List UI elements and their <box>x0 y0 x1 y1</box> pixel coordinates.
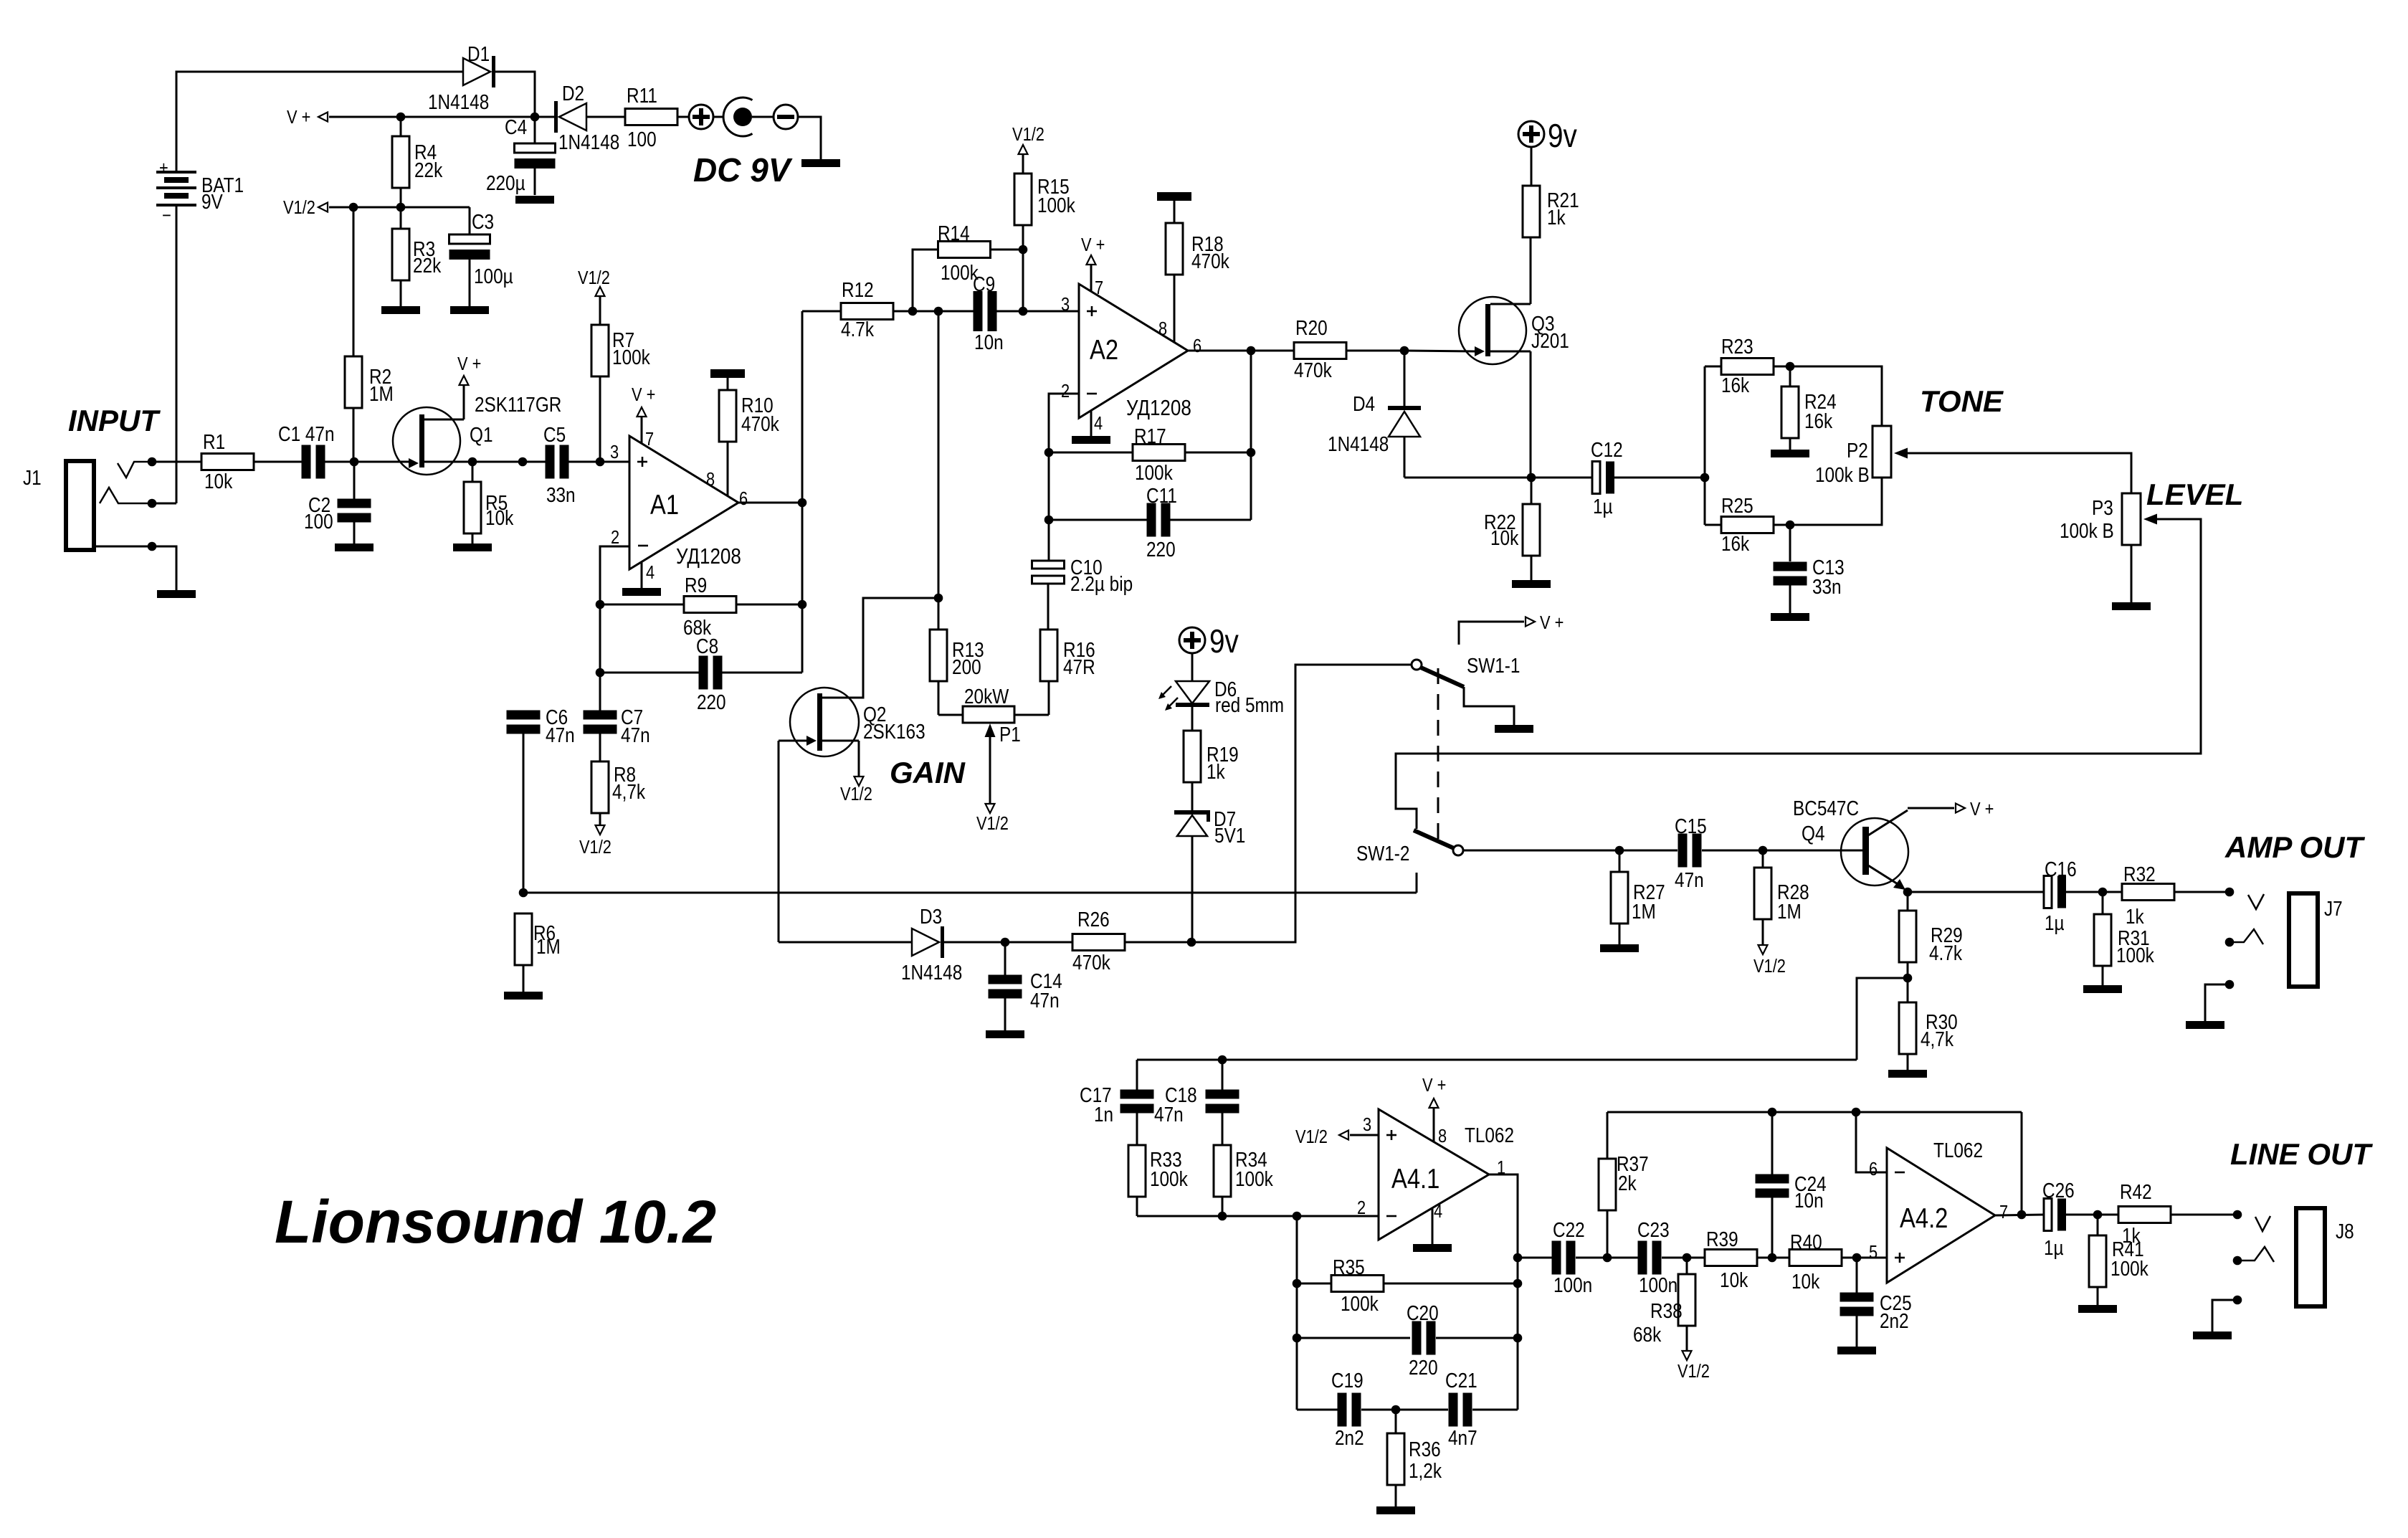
svg-text:47n: 47n <box>1154 1103 1184 1126</box>
svg-text:D1: D1 <box>467 42 490 65</box>
resistor R25 <box>1705 524 1721 526</box>
junction C24 top <box>1768 1108 1777 1117</box>
svg-text:Q1: Q1 <box>470 423 492 446</box>
svg-text:10n: 10n <box>1794 1189 1824 1212</box>
svg-text:33n: 33n <box>546 483 576 506</box>
junction A4.2 out <box>2017 1210 2027 1220</box>
ground R27 <box>1600 944 1639 952</box>
J8 sleeve contact <box>2233 1296 2242 1305</box>
jack J8 <box>2255 1216 2270 1231</box>
svg-text:1k: 1k <box>2126 905 2144 928</box>
diode D1 <box>463 58 490 85</box>
resistor R22 <box>1531 478 1533 504</box>
resistor R28 <box>1762 850 1764 868</box>
svg-text:470k: 470k <box>1294 359 1332 381</box>
transistor Q1 <box>393 407 460 475</box>
svg-text:33n: 33n <box>1812 575 1842 598</box>
junction R27 <box>1615 846 1624 855</box>
svg-text:470k: 470k <box>1191 250 1229 272</box>
junction R41 top <box>2093 1210 2103 1220</box>
svg-text:2: 2 <box>1357 1197 1366 1218</box>
wire A2 feedback column <box>1250 351 1252 520</box>
svg-text:УД1208: УД1208 <box>676 544 741 569</box>
svg-text:C8: C8 <box>696 635 718 658</box>
ground R3 <box>381 306 420 314</box>
resistor R41 <box>2097 1215 2099 1235</box>
svg-text:4: 4 <box>1434 1201 1442 1222</box>
svg-text:22k: 22k <box>414 158 443 181</box>
svg-text:SW1-2: SW1-2 <box>1356 842 1409 865</box>
svg-text:47n: 47n <box>621 723 650 746</box>
svg-text:100n: 100n <box>1553 1273 1592 1296</box>
svg-text:R20: R20 <box>1295 316 1328 339</box>
svg-text:1µ: 1µ <box>2045 911 2065 934</box>
wire C1 to Q1 gate <box>325 461 409 463</box>
svg-text:1N4148: 1N4148 <box>901 961 962 984</box>
wire R33/R34 to A4.1 pin2 <box>1137 1215 1379 1217</box>
ground R5 <box>453 543 492 551</box>
junction C22 left <box>1513 1253 1523 1263</box>
svg-text:R9: R9 <box>685 574 707 597</box>
wire Q2 gate column <box>778 741 780 942</box>
op-amp A4.1 <box>1379 1109 1489 1240</box>
jack J7 <box>2248 894 2264 909</box>
junction R31 <box>2098 888 2108 897</box>
resistor R23 <box>1705 366 1721 368</box>
svg-text:4: 4 <box>1094 413 1103 434</box>
svg-text:3: 3 <box>1363 1114 1371 1135</box>
ground R30 <box>1888 1070 1927 1078</box>
svg-text:100k: 100k <box>1037 194 1075 217</box>
svg-text:V +: V + <box>1081 234 1105 255</box>
svg-text:200: 200 <box>952 655 981 678</box>
ground SW1-1 <box>1495 725 1533 733</box>
wire A2 pin2 <box>1049 394 1079 561</box>
ground R31 <box>2083 985 2122 993</box>
resistor R11 <box>586 116 625 118</box>
ground J8 <box>2193 1331 2232 1339</box>
wire Q1 source to C5 <box>472 461 546 463</box>
resistor R20 <box>1294 343 1346 359</box>
V+ arrow A4.1 pin8 <box>1433 1109 1435 1141</box>
ground A4.1 pin4 <box>1432 1208 1434 1244</box>
battery BAT1 <box>156 171 196 174</box>
junction R17 right <box>1247 448 1256 457</box>
V+ arrow SW1-1 throw <box>1459 622 1524 645</box>
svg-text:1k: 1k <box>2122 1224 2141 1247</box>
capacitor C1 <box>302 445 311 479</box>
svg-text:V +: V + <box>1970 799 1994 820</box>
junction Q2 column <box>934 307 943 316</box>
junction C20 right <box>1513 1334 1523 1343</box>
svg-text:Q4: Q4 <box>1802 822 1825 845</box>
capacitor C4 <box>534 117 536 143</box>
svg-text:V +: V + <box>287 107 310 128</box>
resistor R42 <box>2118 1207 2171 1223</box>
capacitor C13 <box>1789 525 1791 561</box>
svg-text:1M: 1M <box>536 935 561 958</box>
node V1/2 arrow <box>318 203 328 212</box>
J7 sleeve contact <box>2225 980 2235 989</box>
svg-text:9v: 9v <box>1548 118 1577 154</box>
wire P2 wiper to P3 top <box>1908 453 2131 493</box>
wire input row <box>152 461 201 463</box>
svg-text:P3: P3 <box>2092 496 2113 519</box>
junction R3 top <box>396 203 406 212</box>
capacitor C21 <box>1396 1409 1448 1411</box>
svg-text:47n: 47n <box>1675 868 1704 891</box>
svg-text:2SK117GR: 2SK117GR <box>475 393 561 416</box>
junction C11 left <box>1044 516 1054 525</box>
svg-text:4n7: 4n7 <box>1448 1426 1477 1449</box>
svg-text:100k: 100k <box>2116 944 2154 967</box>
svg-text:LINE OUT: LINE OUT <box>2230 1137 2373 1171</box>
resistor R13 <box>938 311 940 630</box>
junction R36 <box>1391 1405 1401 1415</box>
svg-text:100n: 100n <box>1639 1273 1677 1296</box>
svg-text:220: 220 <box>1146 538 1176 561</box>
resistor R37 <box>1607 1210 1609 1258</box>
svg-text:+: + <box>159 158 168 179</box>
svg-text:2k: 2k <box>1618 1172 1637 1195</box>
resistor R33 <box>1128 1145 1146 1197</box>
capacitor C8 <box>600 672 699 674</box>
svg-text:2n2: 2n2 <box>1880 1309 1909 1332</box>
node V+ arrow <box>318 113 328 122</box>
resistor R6 <box>515 913 532 965</box>
LED D6 <box>1191 653 1194 681</box>
svg-text:100k B: 100k B <box>1815 463 1870 486</box>
jack J1 <box>66 461 94 550</box>
resistor R21 <box>1523 186 1540 237</box>
svg-text:C4: C4 <box>505 115 527 138</box>
capacitor C19 <box>1297 1409 1338 1411</box>
V+ arrow Q4 collector <box>1908 807 1954 810</box>
svg-text:100k: 100k <box>1341 1292 1379 1315</box>
capacitor C9 <box>974 291 983 331</box>
junction R28 <box>1759 846 1768 855</box>
junction R7 bottom <box>596 457 605 467</box>
junction A1 out <box>798 498 807 508</box>
junction R5 node <box>468 457 477 467</box>
svg-text:V1/2: V1/2 <box>578 267 610 288</box>
wire A1 pin2 <box>600 546 629 711</box>
9v supply Q3 <box>1518 121 1544 147</box>
wire to D3 <box>779 941 912 944</box>
svg-text:TL062: TL062 <box>1933 1139 1983 1162</box>
resistor R2 <box>353 207 355 356</box>
svg-text:2SK163: 2SK163 <box>863 720 925 743</box>
capacitor C14 <box>1004 942 1006 975</box>
resistor R27 <box>1619 850 1621 872</box>
J1 sleeve contact <box>94 546 152 548</box>
svg-text:100k: 100k <box>1235 1167 1273 1190</box>
capacitor C11 <box>1049 519 1147 521</box>
svg-text:C15: C15 <box>1675 815 1707 837</box>
wire C6 to R6 node <box>523 734 525 893</box>
svg-text:C22: C22 <box>1553 1218 1585 1241</box>
capacitor C18 <box>1222 1060 1224 1090</box>
svg-text:10k: 10k <box>1490 526 1519 549</box>
junction C6 column <box>518 457 528 467</box>
resistor R1 <box>201 454 254 470</box>
V1/2 arrow Q2 source <box>858 741 860 776</box>
capacitor C5 <box>546 445 555 479</box>
svg-text:R35: R35 <box>1333 1255 1365 1278</box>
resistor R12 <box>802 310 841 313</box>
junction R23/R24 <box>1786 362 1795 371</box>
capacitor C7 <box>584 711 617 720</box>
capacitor C22 <box>1518 1257 1552 1259</box>
svg-text:R32: R32 <box>2123 863 2156 886</box>
ground C14 <box>986 1030 1024 1038</box>
svg-text:1N4148: 1N4148 <box>558 130 619 153</box>
ground R6 <box>504 992 543 1000</box>
svg-text:2: 2 <box>611 527 619 548</box>
capacitor C3 <box>469 207 471 235</box>
svg-text:6: 6 <box>1193 336 1201 356</box>
wire D1 cathode to V+ node <box>495 72 535 117</box>
svg-text:−: − <box>162 205 171 226</box>
capacitor C26 <box>2044 1199 2052 1231</box>
resistor R38 <box>1686 1258 1688 1274</box>
wire battery+ to D1 top rail <box>176 72 463 172</box>
junction pin6 column <box>1852 1108 1861 1117</box>
junction C14 <box>1001 938 1010 947</box>
transistor Q2 <box>822 598 938 698</box>
svg-text:7: 7 <box>1095 277 1103 298</box>
svg-text:16k: 16k <box>1721 532 1750 555</box>
svg-text:J1: J1 <box>23 466 42 489</box>
capacitor C24 <box>1771 1112 1774 1174</box>
svg-text:1N4148: 1N4148 <box>1328 432 1389 455</box>
svg-text:R17: R17 <box>1134 424 1166 447</box>
resistor R8 <box>599 734 601 761</box>
wire P3 bottom to ground <box>2131 545 2133 602</box>
svg-text:C19: C19 <box>1331 1369 1364 1392</box>
junction R35 left <box>1293 1279 1302 1288</box>
wire SW1-2 lower throw <box>1416 873 1418 893</box>
svg-text:16k: 16k <box>1804 409 1833 432</box>
capacitor C23 <box>1638 1241 1647 1275</box>
wire battery- to J1 ring <box>176 207 178 503</box>
svg-text:9V: 9V <box>201 190 223 213</box>
junction R35 right <box>1513 1279 1523 1288</box>
svg-text:D4: D4 <box>1353 392 1375 415</box>
J1 tip contact <box>118 462 152 478</box>
capacitor C12 <box>1531 477 1593 479</box>
svg-text:6: 6 <box>1869 1159 1878 1179</box>
transistor Q3 <box>1459 297 1526 364</box>
svg-text:8: 8 <box>1158 318 1167 339</box>
wire R23 junction to P2 top <box>1790 366 1882 426</box>
wire A4.2 pin6 <box>1856 1112 1887 1172</box>
ground R24 <box>1771 450 1809 457</box>
svg-text:A4.1: A4.1 <box>1391 1162 1439 1194</box>
ground J1 <box>157 590 196 598</box>
junction R9 left <box>596 600 605 609</box>
ground C4 <box>515 196 554 204</box>
svg-text:GAIN: GAIN <box>890 756 966 789</box>
resistor R3 <box>400 207 402 229</box>
junction R37 bottom <box>1603 1253 1612 1263</box>
J1 ring contact <box>100 488 152 503</box>
svg-text:D3: D3 <box>920 905 942 928</box>
svg-text:100: 100 <box>304 510 333 533</box>
junction R2 top <box>349 203 358 212</box>
svg-text:R39: R39 <box>1706 1228 1738 1250</box>
svg-text:Lionsound 10.2: Lionsound 10.2 <box>275 1188 716 1255</box>
resistor R9 <box>600 604 684 606</box>
svg-text:9v: 9v <box>1209 623 1239 660</box>
J8 ring contact <box>2233 1256 2242 1266</box>
resistor R7 <box>596 287 605 296</box>
op-amp A1 <box>629 436 738 569</box>
V+ arrow Q1 drain <box>460 376 469 385</box>
ground R41 <box>2078 1305 2117 1313</box>
svg-text:C16: C16 <box>2045 858 2077 880</box>
svg-text:10k: 10k <box>204 470 233 493</box>
svg-text:R42: R42 <box>2120 1180 2152 1203</box>
junction R29/R30 <box>1903 974 1913 983</box>
svg-text:C21: C21 <box>1445 1369 1477 1392</box>
wire D3 to C14 junction <box>944 941 1005 944</box>
resistor R39 <box>1705 1250 1757 1266</box>
junction R2/C2 node <box>350 457 359 467</box>
svg-text:TL062: TL062 <box>1465 1124 1514 1147</box>
junction V+ node <box>530 113 540 122</box>
ground C25 <box>1837 1347 1876 1354</box>
svg-text:68k: 68k <box>1633 1323 1662 1346</box>
svg-text:AMP OUT: AMP OUT <box>2224 830 2365 864</box>
svg-text:2: 2 <box>1061 381 1070 402</box>
wire tone block left rail <box>1704 366 1706 525</box>
wire C5 to A1 pin3 <box>568 461 629 463</box>
switch SW1-2 <box>1453 845 1463 855</box>
junction C12 node <box>1527 473 1536 483</box>
junction R4 top <box>396 113 406 122</box>
svg-text:V1/2: V1/2 <box>1295 1126 1328 1147</box>
J7 ring contact <box>2225 938 2235 947</box>
svg-text:10k: 10k <box>485 506 514 529</box>
svg-text:V1/2: V1/2 <box>840 784 872 804</box>
svg-text:A2: A2 <box>1090 333 1118 365</box>
svg-text:R12: R12 <box>842 278 874 301</box>
capacitor C10 bipolar <box>1032 561 1065 569</box>
capacitor C6 <box>507 711 541 720</box>
svg-text:P1: P1 <box>999 723 1021 746</box>
resistor R29 <box>1907 892 1909 911</box>
resistor R40 <box>1789 1250 1842 1266</box>
capacitor C20 <box>1297 1337 1410 1339</box>
junction left column <box>1293 1212 1302 1221</box>
wire SW1-2 pole out <box>1463 850 1677 852</box>
diode D4 <box>1404 351 1406 406</box>
svg-text:C20: C20 <box>1407 1301 1439 1324</box>
svg-text:4,7k: 4,7k <box>612 780 646 803</box>
wire DC jack minus to ground <box>798 117 821 159</box>
junction R25/C13 <box>1786 521 1795 530</box>
wire LED node to SW1-1 <box>1191 665 1412 942</box>
svg-text:V1/2: V1/2 <box>579 837 611 858</box>
ground P3 <box>2112 602 2151 610</box>
ground DC jack <box>801 159 840 167</box>
svg-text:R14: R14 <box>938 222 970 245</box>
junction R9 right <box>798 600 807 609</box>
resistor R35 <box>1297 1283 1331 1285</box>
svg-text:7: 7 <box>1999 1202 2008 1223</box>
svg-text:R38: R38 <box>1650 1299 1683 1322</box>
op-amp A4.2 <box>1887 1148 1995 1283</box>
junction C8 left <box>596 668 605 678</box>
junction tone input <box>1700 473 1710 483</box>
svg-text:A1: A1 <box>650 488 679 520</box>
svg-text:BC547C: BC547C <box>1793 797 1859 820</box>
resistor R14 <box>913 250 938 311</box>
svg-text:J8: J8 <box>2336 1220 2354 1243</box>
resistor R32 <box>2103 891 2122 893</box>
resistor R19 <box>1191 707 1194 731</box>
ground C2 <box>335 543 373 551</box>
svg-text:C1 47n: C1 47n <box>278 422 335 445</box>
svg-text:100: 100 <box>627 128 657 151</box>
junction C18 top <box>1218 1055 1227 1065</box>
svg-text:C3: C3 <box>472 210 494 233</box>
svg-text:3: 3 <box>1061 294 1070 315</box>
junction R14 right <box>1019 245 1028 255</box>
wire P2 bottom to R25 junction <box>1790 478 1882 525</box>
svg-text:47R: 47R <box>1063 655 1095 678</box>
svg-text:A4.2: A4.2 <box>1900 1202 1948 1233</box>
junction Q2 drain <box>934 594 943 603</box>
svg-text:V1/2: V1/2 <box>976 813 1009 834</box>
svg-text:220: 220 <box>1409 1356 1438 1379</box>
resistor R10 <box>710 369 745 378</box>
wire A4.2 feedback row <box>1607 1111 2022 1114</box>
ground A1 pin4 <box>641 562 643 588</box>
svg-text:D2: D2 <box>562 82 584 105</box>
resistor R4 <box>400 117 402 136</box>
svg-text:C5: C5 <box>543 423 566 446</box>
wire feedback to C17/C18 <box>1137 1059 1857 1061</box>
svg-text:V1/2: V1/2 <box>283 197 315 218</box>
junction J8 tip <box>2233 1210 2242 1220</box>
9v supply D6 <box>1179 627 1205 653</box>
capacitor C15 <box>1678 834 1688 868</box>
svg-text:100k B: 100k B <box>2060 519 2114 542</box>
svg-text:2.2µ bip: 2.2µ bip <box>1070 572 1133 595</box>
svg-text:C11: C11 <box>1146 484 1177 507</box>
V+ arrow A1 pin7 <box>641 417 643 443</box>
junction Q3 gate node <box>1400 346 1409 356</box>
svg-text:1n: 1n <box>1094 1103 1113 1126</box>
svg-text:V1/2: V1/2 <box>1012 124 1044 145</box>
junction A2 out <box>1247 346 1256 356</box>
junction R17 left <box>1044 448 1054 457</box>
wire A4.2 output <box>1995 1215 2045 1215</box>
V+ arrow A2 pin7 <box>1090 265 1093 291</box>
junction D7/R26 <box>1187 938 1196 947</box>
wire emitter to C16 <box>1908 891 2045 893</box>
ground C3 <box>450 306 489 314</box>
svg-text:УД1208: УД1208 <box>1126 396 1191 421</box>
ground J7 <box>2186 1021 2224 1029</box>
diode D3 <box>912 929 939 956</box>
svg-text:1M: 1M <box>369 382 394 405</box>
junction C20 left <box>1293 1334 1302 1343</box>
svg-text:100k: 100k <box>1135 461 1173 484</box>
svg-text:1µ: 1µ <box>1593 495 1613 518</box>
